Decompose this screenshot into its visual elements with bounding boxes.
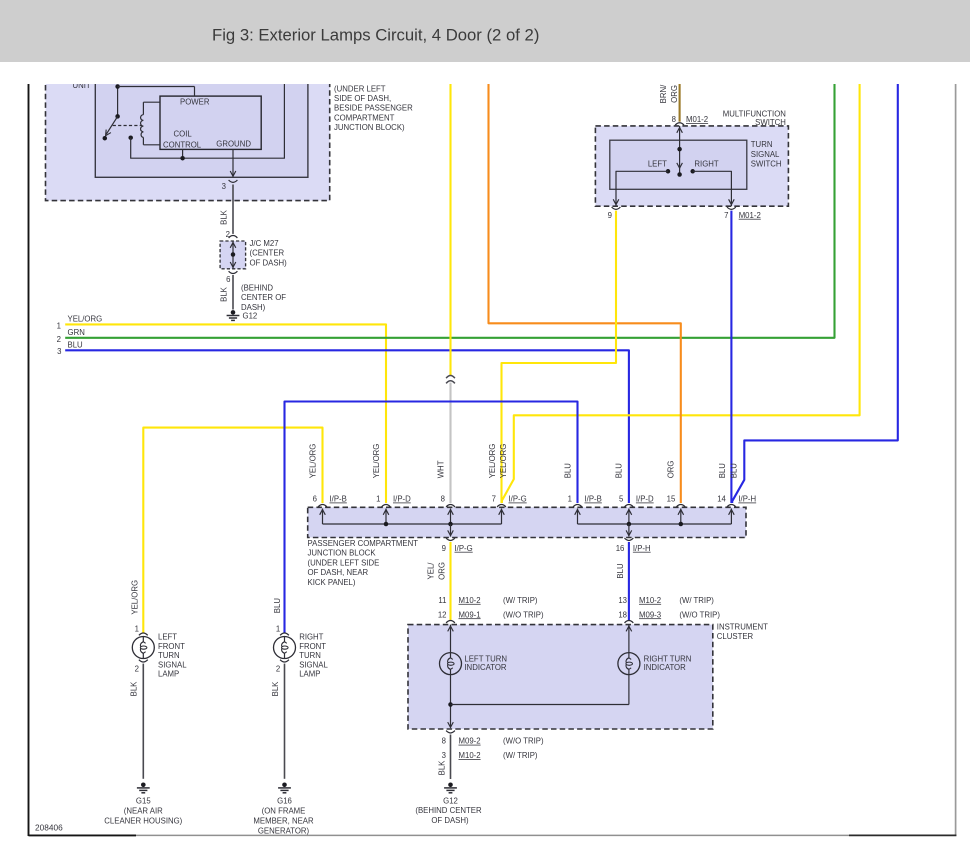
svg-text:M10-2: M10-2 xyxy=(639,596,661,605)
svg-text:LEFT: LEFT xyxy=(648,159,667,168)
svg-text:YEL/ORG: YEL/ORG xyxy=(488,444,497,479)
svg-text:BLU: BLU xyxy=(615,463,624,479)
svg-text:M09-2: M09-2 xyxy=(459,737,481,746)
svg-text:DASH): DASH) xyxy=(241,303,266,312)
svg-text:(UNDER LEFT: (UNDER LEFT xyxy=(334,85,386,94)
svg-text:BLK: BLK xyxy=(437,760,446,776)
svg-text:CLEANER HOUSING): CLEANER HOUSING) xyxy=(104,817,182,826)
svg-text:14: 14 xyxy=(717,495,726,504)
svg-text:M09-3: M09-3 xyxy=(639,610,661,619)
svg-text:(W/ TRIP): (W/ TRIP) xyxy=(503,751,538,760)
svg-text:INSTRUMENT: INSTRUMENT xyxy=(717,622,768,631)
svg-text:SIGNAL: SIGNAL xyxy=(158,660,187,669)
svg-text:RIGHT: RIGHT xyxy=(694,159,718,168)
svg-text:SWITCH: SWITCH xyxy=(755,118,786,127)
svg-text:COIL: COIL xyxy=(174,129,193,138)
svg-text:(W/O TRIP): (W/O TRIP) xyxy=(503,610,544,619)
svg-text:YEL/ORG: YEL/ORG xyxy=(372,444,381,479)
svg-text:JUNCTION BLOCK: JUNCTION BLOCK xyxy=(308,549,377,558)
svg-text:3: 3 xyxy=(222,182,226,191)
svg-text:JUNCTION BLOCK): JUNCTION BLOCK) xyxy=(334,123,405,132)
svg-text:OF DASH): OF DASH) xyxy=(250,258,288,267)
svg-text:5: 5 xyxy=(619,495,624,504)
svg-text:6: 6 xyxy=(226,275,230,284)
svg-text:I/P-B: I/P-B xyxy=(330,495,347,504)
svg-text:15: 15 xyxy=(667,495,676,504)
svg-text:OF DASH, NEAR: OF DASH, NEAR xyxy=(308,568,369,577)
svg-text:2: 2 xyxy=(57,335,61,344)
svg-text:TURN: TURN xyxy=(751,140,773,149)
svg-text:LAMP: LAMP xyxy=(158,670,179,679)
svg-text:CENTER OF: CENTER OF xyxy=(241,293,286,302)
svg-text:YEL/: YEL/ xyxy=(427,562,436,580)
svg-text:I/P-D: I/P-D xyxy=(393,495,411,504)
svg-text:6: 6 xyxy=(313,495,317,504)
svg-text:M09-1: M09-1 xyxy=(459,610,481,619)
svg-text:LAMP: LAMP xyxy=(299,670,320,679)
svg-text:3: 3 xyxy=(442,751,446,760)
svg-text:(W/O TRIP): (W/O TRIP) xyxy=(679,610,720,619)
svg-text:INDICATOR: INDICATOR xyxy=(644,663,687,672)
svg-text:TURN: TURN xyxy=(158,651,180,660)
svg-text:I/P-G: I/P-G xyxy=(455,544,473,553)
svg-text:BLK: BLK xyxy=(271,681,280,697)
svg-text:KICK PANEL): KICK PANEL) xyxy=(308,578,356,587)
svg-text:M01-2: M01-2 xyxy=(686,115,708,124)
svg-text:YEL/ORG: YEL/ORG xyxy=(308,444,317,479)
svg-text:1: 1 xyxy=(376,495,380,504)
svg-text:3: 3 xyxy=(57,347,61,356)
svg-text:8: 8 xyxy=(672,115,676,124)
svg-text:M10-2: M10-2 xyxy=(459,596,481,605)
svg-text:I/P-D: I/P-D xyxy=(636,495,654,504)
svg-text:I/P-G: I/P-G xyxy=(509,495,527,504)
svg-text:(BEHIND CENTER: (BEHIND CENTER xyxy=(415,806,482,815)
svg-text:13: 13 xyxy=(618,596,627,605)
svg-text:BESIDE PASSENGER: BESIDE PASSENGER xyxy=(334,104,413,113)
svg-text:COMPARTMENT: COMPARTMENT xyxy=(334,113,395,122)
svg-text:2: 2 xyxy=(276,665,280,674)
svg-text:BLU: BLU xyxy=(273,598,282,614)
svg-text:CONTROL: CONTROL xyxy=(163,140,202,149)
svg-text:1: 1 xyxy=(57,322,61,331)
svg-text:INDICATOR: INDICATOR xyxy=(464,663,507,672)
svg-text:POWER: POWER xyxy=(180,98,210,107)
svg-text:BLU: BLU xyxy=(616,563,625,579)
svg-text:RIGHT: RIGHT xyxy=(299,633,323,642)
svg-text:FRONT: FRONT xyxy=(158,642,185,651)
svg-text:(NEAR AIR: (NEAR AIR xyxy=(124,806,163,815)
svg-text:(BEHIND: (BEHIND xyxy=(241,284,273,293)
svg-text:(UNDER LEFT SIDE: (UNDER LEFT SIDE xyxy=(308,558,380,567)
svg-text:J/C M27: J/C M27 xyxy=(250,239,279,248)
svg-text:M01-2: M01-2 xyxy=(739,211,761,220)
svg-text:I/P-H: I/P-H xyxy=(738,495,756,504)
svg-text:7: 7 xyxy=(492,495,496,504)
svg-text:M10-2: M10-2 xyxy=(459,751,481,760)
svg-text:18: 18 xyxy=(618,610,627,619)
svg-text:Fig 3: Exterior Lamps Circuit,: Fig 3: Exterior Lamps Circuit, 4 Door (2… xyxy=(212,25,539,44)
svg-text:G12: G12 xyxy=(243,312,258,321)
svg-text:1: 1 xyxy=(276,625,280,634)
svg-text:WHT: WHT xyxy=(436,460,445,478)
svg-text:MULTIFUNCTION: MULTIFUNCTION xyxy=(723,109,786,118)
svg-text:BLU: BLU xyxy=(730,463,739,479)
svg-text:FRONT: FRONT xyxy=(299,642,326,651)
svg-text:16: 16 xyxy=(616,544,625,553)
svg-text:208406: 208406 xyxy=(35,823,63,833)
svg-text:SWITCH: SWITCH xyxy=(751,160,782,169)
svg-text:ORG: ORG xyxy=(438,562,447,580)
svg-text:(W/ TRIP): (W/ TRIP) xyxy=(503,596,538,605)
svg-text:YEL/ORG: YEL/ORG xyxy=(499,444,508,479)
svg-text:OF DASH): OF DASH) xyxy=(431,816,469,825)
svg-text:BLU: BLU xyxy=(68,341,84,350)
svg-text:CLUSTER: CLUSTER xyxy=(717,632,754,641)
svg-text:1: 1 xyxy=(568,495,572,504)
svg-text:11: 11 xyxy=(438,596,446,605)
svg-text:BLK: BLK xyxy=(219,209,228,225)
svg-text:(CENTER: (CENTER xyxy=(250,249,285,258)
svg-text:I/P-H: I/P-H xyxy=(633,544,651,553)
svg-text:7: 7 xyxy=(724,211,728,220)
svg-text:1: 1 xyxy=(135,625,139,634)
svg-text:BLK: BLK xyxy=(130,681,139,697)
svg-text:LEFT: LEFT xyxy=(158,633,177,642)
svg-text:(W/ TRIP): (W/ TRIP) xyxy=(679,596,714,605)
svg-text:G16: G16 xyxy=(277,796,292,805)
svg-text:2: 2 xyxy=(135,665,139,674)
svg-text:8: 8 xyxy=(442,737,446,746)
svg-text:12: 12 xyxy=(438,610,447,619)
svg-text:MEMBER, NEAR: MEMBER, NEAR xyxy=(253,817,314,826)
svg-text:I/P-B: I/P-B xyxy=(585,495,602,504)
svg-text:BLK: BLK xyxy=(220,286,229,302)
svg-text:G15: G15 xyxy=(136,796,151,805)
svg-text:TURN: TURN xyxy=(299,651,321,660)
svg-text:GROUND: GROUND xyxy=(216,139,251,148)
svg-text:YEL/ORG: YEL/ORG xyxy=(68,315,103,324)
svg-text:BLU: BLU xyxy=(563,463,572,479)
svg-text:PASSENGER COMPARTMENT: PASSENGER COMPARTMENT xyxy=(308,539,419,548)
svg-text:ORG: ORG xyxy=(670,85,679,103)
svg-text:9: 9 xyxy=(608,211,612,220)
svg-text:BRN/: BRN/ xyxy=(659,84,668,103)
svg-text:SIGNAL: SIGNAL xyxy=(751,150,780,159)
svg-text:BLU: BLU xyxy=(718,463,727,479)
svg-text:G12: G12 xyxy=(443,796,458,805)
svg-text:YEL/ORG: YEL/ORG xyxy=(131,580,140,615)
svg-text:SIDE OF DASH,: SIDE OF DASH, xyxy=(334,94,391,103)
svg-text:GRN: GRN xyxy=(68,328,85,337)
svg-text:8: 8 xyxy=(441,495,445,504)
svg-text:UNIT: UNIT xyxy=(73,81,91,90)
svg-text:9: 9 xyxy=(442,544,446,553)
svg-text:SIGNAL: SIGNAL xyxy=(299,660,328,669)
svg-text:ORG: ORG xyxy=(667,461,676,479)
svg-text:(W/O TRIP): (W/O TRIP) xyxy=(503,737,544,746)
svg-text:(ON FRAME: (ON FRAME xyxy=(262,806,306,815)
svg-text:GENERATOR): GENERATOR) xyxy=(258,826,310,835)
